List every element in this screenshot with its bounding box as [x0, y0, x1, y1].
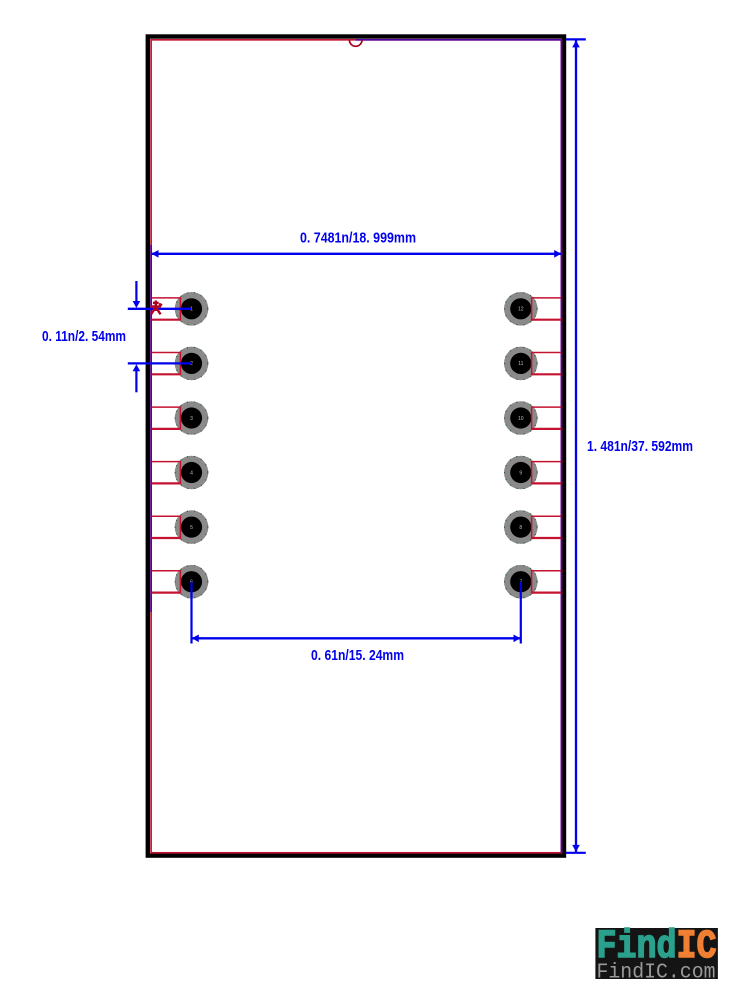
- svg-text:0. 7481n/18. 999mm: 0. 7481n/18. 999mm: [300, 230, 416, 247]
- svg-text:5: 5: [190, 525, 193, 531]
- svg-text:0. 61n/15. 24mm: 0. 61n/15. 24mm: [311, 647, 404, 664]
- svg-text:1. 481n/37. 592mm: 1. 481n/37. 592mm: [587, 438, 693, 455]
- svg-text:8: 8: [519, 525, 522, 531]
- svg-text:10: 10: [518, 416, 524, 422]
- svg-text:3: 3: [190, 416, 193, 422]
- svg-text:12: 12: [518, 307, 524, 313]
- svg-text:4: 4: [190, 470, 193, 476]
- svg-text:11: 11: [518, 361, 523, 367]
- svg-text:FindIC.com: FindIC.com: [597, 962, 716, 985]
- svg-text:0. 11n/2. 54mm: 0. 11n/2. 54mm: [42, 328, 126, 345]
- svg-text:9: 9: [519, 470, 522, 476]
